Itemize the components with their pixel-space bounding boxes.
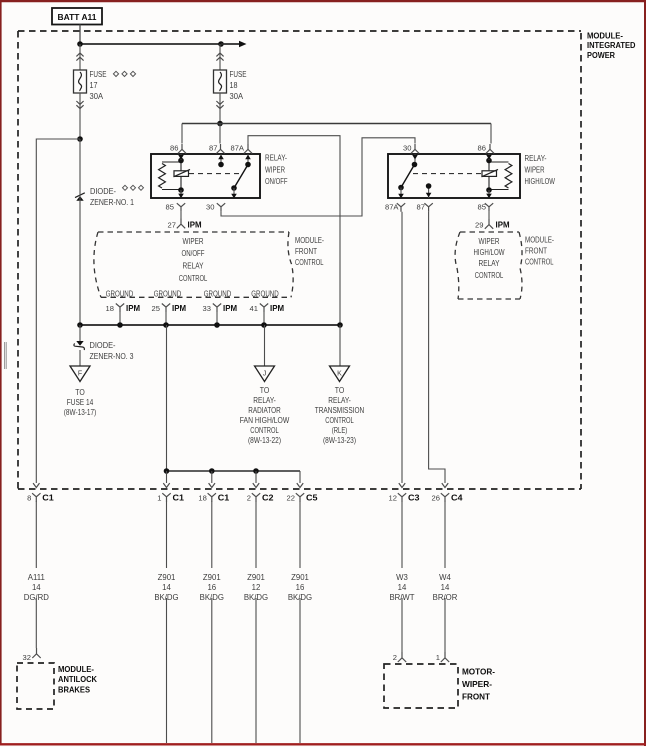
svg-text:W4: W4 (439, 573, 451, 582)
diode zener D1 (75, 193, 85, 201)
wire drop to relay1 pin 86 (181, 124, 183, 144)
relay U1 pin 87A label and fork (230, 144, 252, 154)
svg-text:41: 41 (250, 304, 258, 313)
svg-text:POWER: POWER (587, 50, 616, 60)
svg-text:ON/OFF: ON/OFF (265, 177, 288, 186)
svg-text:CONTROL: CONTROL (475, 271, 504, 280)
connector C2 pin 2 (247, 492, 274, 502)
off-page connector J (255, 366, 275, 382)
svg-text:CONTROL: CONTROL (295, 258, 324, 267)
ground pin labels (106, 289, 279, 298)
wire pin41 to connector J (264, 325, 266, 366)
relay U2 coil (482, 160, 499, 190)
svg-text:ON/OFF: ON/OFF (182, 249, 205, 258)
svg-text:IPM: IPM (172, 303, 186, 313)
label wiper on/off relay control (179, 237, 208, 283)
hot-at-all-times diamonds (113, 71, 135, 76)
relay U2 pin 85 fork (478, 202, 494, 211)
svg-text:18: 18 (230, 81, 238, 90)
ipm ground pin 41 (250, 303, 284, 325)
svg-text:16: 16 (207, 583, 216, 592)
svg-text:W3: W3 (396, 573, 408, 582)
svg-text:BR/WT: BR/WT (389, 593, 414, 602)
label module-front control left (295, 236, 324, 267)
svg-text:22: 22 (287, 493, 295, 502)
svg-text:GROUND: GROUND (154, 289, 182, 298)
svg-text:12: 12 (389, 493, 397, 502)
connector chevrons above fuse 17 (76, 44, 83, 70)
svg-text:IPM: IPM (223, 303, 237, 313)
svg-text:WIPER: WIPER (525, 166, 545, 175)
relay U2 pin 87A fork (385, 202, 405, 211)
wire splice to C1 pin1 (163, 471, 169, 488)
wiper high/low relay control dashed block (455, 232, 522, 299)
svg-text:16: 16 (296, 583, 305, 592)
label to relay-transmission control (315, 386, 365, 445)
label FUSE 18 30A (230, 70, 247, 101)
svg-text:14: 14 (398, 583, 407, 592)
label FUSE 17 30A (90, 70, 107, 101)
ipm pin 29 connector (475, 212, 509, 230)
svg-text:FAN HIGH/LOW: FAN HIGH/LOW (240, 416, 290, 425)
svg-text:2: 2 (393, 653, 397, 662)
wire label W4 14 BR/OR (432, 568, 458, 602)
wire Z901 from C2 pin2 (255, 501, 257, 743)
svg-text:30A: 30A (90, 92, 104, 101)
label MODULE-INTEGRATED POWER (587, 31, 636, 60)
svg-text:Z901: Z901 (158, 573, 176, 582)
module-integrated power dashed boundary box (18, 31, 581, 489)
connector chevrons below fuse 17 (76, 93, 83, 139)
svg-text:87A: 87A (230, 144, 244, 153)
svg-text:FUSE 14: FUSE 14 (67, 398, 94, 407)
wire relay U2 87A down to C3 (401, 212, 403, 483)
relay U2 pin 85 exit arrow (486, 190, 492, 198)
node junction at fuse 17 feed (77, 41, 83, 47)
svg-text:RELAY-: RELAY- (328, 396, 351, 405)
label DIODE-ZENER-NO. 1 (90, 187, 134, 207)
svg-text:RELAY-: RELAY- (265, 154, 287, 163)
svg-text:RELAY: RELAY (183, 262, 205, 271)
svg-text:FUSE: FUSE (90, 70, 107, 79)
svg-text:HIGH/LOW: HIGH/LOW (525, 177, 556, 186)
node fuse17 junction to C1 riser (77, 136, 83, 142)
relay U1 pin 87 label and fork (209, 144, 225, 154)
svg-text:C1: C1 (218, 492, 230, 502)
svg-text:GROUND: GROUND (204, 289, 232, 298)
svg-text:87: 87 (209, 144, 217, 153)
wire BATT A11 down to node (79, 25, 81, 45)
svg-text:14: 14 (32, 583, 41, 592)
arrow C3 pin12 boundary (399, 483, 405, 487)
wire relay U1 30 over to relay U2 30 (221, 138, 415, 216)
connector C5 pin 22 (287, 492, 318, 502)
svg-text:26: 26 (432, 493, 440, 502)
svg-text:CONTROL: CONTROL (325, 416, 354, 425)
label RELAY-WIPER ON/OFF (265, 154, 288, 187)
wire zener3 to connector F (79, 350, 81, 366)
svg-text:BRAKES: BRAKES (58, 685, 90, 695)
svg-text:FRONT: FRONT (295, 247, 317, 256)
svg-text:TO: TO (260, 386, 270, 395)
wire fuse18 output horizontal rail (182, 123, 491, 125)
wire W4 from C4 pin26 (444, 501, 446, 652)
relay U2 coil resistor (489, 162, 512, 190)
svg-text:Z901: Z901 (203, 573, 221, 582)
connector C4 pin 26 (432, 492, 463, 502)
svg-text:30: 30 (206, 202, 214, 211)
svg-text:(8W-13-17): (8W-13-17) (64, 408, 97, 417)
relay U1 pin 30 fork (206, 202, 225, 211)
connector chevrons below fuse 18 (216, 93, 223, 123)
label DIODE-ZENER-NO. 3 (90, 341, 134, 361)
svg-text:30: 30 (403, 144, 411, 153)
svg-text:1: 1 (157, 493, 161, 502)
svg-text:29: 29 (475, 221, 483, 230)
wire label Z901 16 BK/DG (199, 568, 225, 602)
wire label Z901 14 BK/DG (154, 568, 180, 602)
node relay U2 coil bottom (486, 187, 492, 193)
svg-text:MODULE-: MODULE- (587, 31, 623, 41)
wire A111 down from C1 pin8 (35, 501, 37, 648)
ipm ground pin 33 (203, 303, 237, 325)
svg-text:TRANSMISSION: TRANSMISSION (315, 406, 365, 415)
svg-text:IPM: IPM (270, 303, 284, 313)
svg-text:RELAY: RELAY (479, 259, 501, 268)
svg-text:18: 18 (106, 304, 114, 313)
ipm pin 27 connector (168, 212, 202, 230)
svg-text:TO: TO (75, 388, 85, 397)
wire relay U1 87A up-over-down to K and ground bus (248, 136, 340, 325)
svg-text:HIGH/LOW: HIGH/LOW (474, 248, 505, 257)
label module-front control right (525, 236, 554, 267)
svg-text:INTEGRATED: INTEGRATED (587, 40, 636, 50)
svg-text:18: 18 (198, 493, 206, 502)
svg-text:C4: C4 (451, 492, 463, 502)
node relay U1 coil top (178, 158, 184, 164)
svg-text:BK/DG: BK/DG (288, 593, 312, 602)
motor-wiper-front dashed box (384, 664, 458, 708)
svg-text:MODULE-: MODULE- (58, 664, 94, 674)
svg-text:86: 86 (478, 144, 486, 153)
diamonds next to diode 1 (123, 185, 144, 190)
relay U2 linkage dashed (413, 173, 482, 175)
wire relay U2 87 down jog to C4 (429, 212, 445, 483)
svg-text:MODULE-: MODULE- (525, 236, 554, 245)
svg-text:RELAY-: RELAY- (525, 154, 547, 163)
relay U1 wiper on/off box (151, 154, 260, 198)
svg-text:FRONT: FRONT (525, 247, 547, 256)
relay U2 pin 86 label and fork (478, 144, 495, 154)
svg-text:30A: 30A (230, 92, 244, 101)
relay U2 pin 30 label and fork (403, 144, 419, 154)
svg-text:IPM: IPM (188, 220, 202, 230)
splice bus above connectors (164, 468, 300, 474)
svg-text:1: 1 (436, 653, 440, 662)
svg-text:C3: C3 (408, 492, 420, 502)
relay U2 pin 86 entry arrow (486, 154, 492, 160)
connector C1 pin 8 (27, 492, 54, 502)
svg-text:A111: A111 (28, 573, 45, 582)
svg-text:(8W-13-23): (8W-13-23) (323, 436, 356, 445)
label to relay-radiator fan high/low control (240, 386, 290, 445)
node fuse 18 output junction (217, 121, 223, 127)
svg-text:GROUND: GROUND (106, 289, 134, 298)
margin artifact ticks (5, 342, 7, 369)
svg-text:32: 32 (23, 653, 31, 662)
svg-text:FRONT: FRONT (462, 692, 491, 702)
relay U2 switch blade (398, 165, 414, 199)
svg-text:FUSE: FUSE (230, 70, 247, 79)
off-page connector F (70, 366, 90, 382)
wire splice to C5 pin22 (297, 471, 303, 488)
svg-text:CONTROL: CONTROL (525, 258, 554, 267)
node junction at fuse 18 feed (218, 41, 224, 47)
relay U1 pin 85 fork (166, 202, 186, 211)
svg-text:CONTROL: CONTROL (250, 426, 279, 435)
label MOTOR-WIPER-FRONT (462, 667, 495, 702)
wire to connector 8-C1 riser (36, 139, 80, 483)
battery feed BATT A11 box (52, 8, 102, 25)
wire label A111 14 DG/RD (23, 568, 49, 602)
label MODULE-ANTILOCK BRAKES (58, 664, 97, 695)
relay U1 switch blade (231, 165, 248, 199)
svg-text:WIPER-: WIPER- (462, 679, 492, 689)
svg-text:BK/DG: BK/DG (200, 593, 224, 602)
connector C3 pin 12 (389, 492, 420, 502)
ground bus node (77, 322, 343, 328)
svg-text:WIPER: WIPER (479, 237, 500, 246)
svg-text:25: 25 (152, 304, 160, 313)
wire 87A node down to connector K (339, 325, 341, 366)
svg-text:Z901: Z901 (291, 573, 309, 582)
wire label W3 14 BR/WT (389, 568, 415, 602)
svg-text:MODULE-: MODULE- (295, 236, 324, 245)
svg-text:14: 14 (162, 583, 171, 592)
ipm ground pin 25 (152, 303, 186, 325)
relay U2 pin 87 contact (426, 183, 432, 198)
svg-text:33: 33 (203, 304, 211, 313)
svg-text:12: 12 (252, 583, 261, 592)
module-antilock brakes dashed box (17, 663, 54, 709)
svg-text:27: 27 (168, 221, 176, 230)
svg-text:Z901: Z901 (247, 573, 265, 582)
relay U1 pin 86 label and fork (170, 144, 186, 154)
svg-text:WIPER: WIPER (265, 166, 285, 175)
svg-text:ZENER-NO. 3: ZENER-NO. 3 (90, 352, 134, 361)
svg-text:DIODE-: DIODE- (90, 187, 116, 196)
motor wiper front pin 1 (436, 652, 449, 662)
svg-text:(8W-13-22): (8W-13-22) (248, 436, 281, 445)
wire label Z901 16 BK/DG right (287, 568, 313, 602)
off-page connector K (330, 366, 350, 382)
svg-text:86: 86 (170, 144, 178, 153)
relay U1 pin 87 contact (218, 154, 224, 167)
svg-text:J: J (263, 371, 267, 378)
wire Z901 from C1 pin18 (211, 501, 213, 743)
label wiper high/low relay control (474, 237, 505, 280)
svg-text:85: 85 (166, 202, 174, 211)
svg-text:MOTOR-: MOTOR- (462, 667, 495, 677)
svg-text:17: 17 (90, 81, 98, 90)
svg-text:C1: C1 (173, 492, 185, 502)
relay U2 pin 87 fork (417, 202, 433, 211)
svg-text:85: 85 (478, 202, 486, 211)
ipm ground pin 18 (106, 303, 140, 325)
motor wiper front pin 2 (393, 652, 406, 662)
svg-text:RELAY-: RELAY- (253, 396, 276, 405)
arrow wire continuation right (221, 41, 247, 47)
svg-text:WIPER: WIPER (183, 237, 204, 246)
wire drop to relay1 pin 87 (219, 124, 221, 144)
svg-text:ANTILOCK: ANTILOCK (58, 674, 97, 684)
relay U2 pin 30 entry arrow (412, 154, 418, 167)
svg-text:ZENER-NO. 1: ZENER-NO. 1 (90, 198, 134, 207)
svg-text:BR/OR: BR/OR (433, 593, 458, 602)
svg-text:C1: C1 (42, 492, 54, 502)
svg-text:87: 87 (417, 202, 425, 211)
svg-text:BK/DG: BK/DG (154, 593, 178, 602)
wire Z901 from C5 pin22 (299, 501, 301, 743)
fuse F18 30A (214, 70, 227, 93)
svg-text:BATT A11: BATT A11 (58, 12, 97, 22)
svg-text:BK/DG: BK/DG (244, 593, 268, 602)
svg-text:RADIATOR: RADIATOR (248, 406, 281, 415)
wire Z901 from C1 pin1 (166, 501, 168, 743)
connector C1 pin 1 (157, 492, 184, 502)
node relay U1 coil bottom (178, 187, 184, 193)
wire splice to C2 pin2 (253, 471, 259, 488)
relay U1 pin 86 entry arrow (178, 154, 184, 160)
arrow C1 pin8 boundary (33, 483, 39, 487)
wire top horizontal feed (80, 43, 221, 45)
svg-text:DIODE-: DIODE- (90, 341, 116, 350)
fuse F17 30A (74, 70, 87, 93)
svg-text:GROUND: GROUND (251, 289, 279, 298)
svg-text:TO: TO (335, 386, 345, 395)
wiper on/off relay control dashed block (94, 232, 293, 297)
svg-text:CONTROL: CONTROL (179, 274, 208, 283)
svg-text:2: 2 (247, 493, 251, 502)
svg-text:8: 8 (27, 493, 31, 502)
wire drop to relay2 pin 86 (490, 124, 492, 144)
wire label Z901 12 BK/DG (243, 568, 269, 602)
svg-text:K: K (337, 371, 342, 378)
relay U1 coil (174, 160, 191, 190)
label to fuse 14 (64, 388, 97, 417)
node relay U2 coil top (486, 158, 492, 164)
svg-text:87A: 87A (385, 202, 399, 211)
svg-text:C5: C5 (306, 492, 318, 502)
arrow C4 pin26 boundary (442, 483, 448, 487)
svg-text:14: 14 (441, 583, 450, 592)
relay U1 linkage dashed (189, 173, 243, 175)
connector C1 pin 18 (198, 492, 229, 502)
svg-text:C2: C2 (262, 492, 274, 502)
relay U1 coil resistor (159, 162, 181, 190)
label RELAY-WIPER HIGH/LOW (525, 154, 556, 186)
connector chevrons above fuse 18 (216, 44, 223, 70)
wire fuse17 branch down to ground bus (79, 139, 81, 325)
relay U2 wiper high/low box (388, 154, 520, 198)
wire splice to C1 pin18 (209, 471, 215, 488)
svg-text:DG/RD: DG/RD (24, 593, 49, 602)
diode zener D3 (74, 325, 85, 350)
wire W3 from C3 pin12 (401, 501, 403, 652)
module antilock brakes pin 32 (23, 648, 41, 662)
relay U1 pin 85 exit arrow (178, 190, 184, 198)
wire ground bus down to splice bus (166, 325, 168, 471)
svg-text:IPM: IPM (496, 220, 510, 230)
svg-text:IPM: IPM (126, 303, 140, 313)
svg-text:(RLE): (RLE) (332, 426, 348, 435)
relay U1 pin 87A contact (245, 154, 251, 167)
svg-text:F: F (78, 371, 82, 378)
